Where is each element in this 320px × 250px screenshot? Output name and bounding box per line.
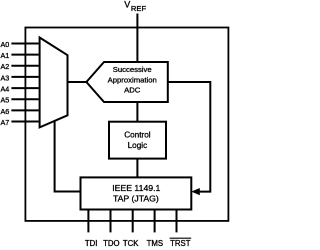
TAP block (IEEE 1149.1 TAP JTAG) [81, 177, 192, 209]
svg-text:TDI: TDI [85, 239, 98, 248]
pin wire TRST [176, 210, 178, 233]
svg-text:REF: REF [131, 4, 147, 13]
svg-text:A1: A1 [1, 51, 10, 60]
multiplexer MUX [40, 38, 68, 128]
svg-text:A4: A4 [1, 85, 10, 94]
wire A2 [11, 65, 38, 67]
wire ADC output to TAP [168, 82, 211, 192]
wire A5 [11, 98, 38, 100]
pin wire TMS [154, 210, 156, 233]
pin wire TCK [132, 210, 134, 233]
svg-text:A7: A7 [1, 118, 10, 127]
wire A0 [11, 43, 38, 45]
pin wire TDI [87, 210, 89, 233]
svg-text:TCK: TCK [123, 239, 139, 248]
chip border [25, 28, 228, 221]
wire Control Logic to TAP [136, 159, 138, 178]
wire ADC to Control Logic [136, 102, 138, 122]
wire A3 [11, 76, 38, 78]
svg-text:TDO: TDO [103, 239, 119, 248]
svg-text:Logic: Logic [128, 141, 148, 150]
svg-text:V: V [124, 0, 130, 10]
wire VREF to ADC [136, 14, 138, 62]
svg-text:ADC: ADC [124, 85, 141, 94]
wire A1 [11, 54, 38, 56]
wire A7 [11, 121, 38, 123]
svg-text:Successive: Successive [113, 65, 152, 74]
svg-text:IEEE 1149.1: IEEE 1149.1 [112, 183, 160, 193]
ADC block (Successive Approximation ADC) [86, 62, 167, 102]
svg-text:A0: A0 [1, 40, 10, 49]
svg-text:A5: A5 [1, 96, 10, 105]
svg-text:TAP (JTAG): TAP (JTAG) [113, 194, 159, 204]
svg-text:A2: A2 [1, 62, 10, 71]
svg-text:Approximation: Approximation [108, 75, 157, 84]
pin wire TDO [110, 210, 112, 233]
Control Logic block [109, 122, 166, 159]
wire MUX to ADC [68, 81, 89, 83]
wire A4 [11, 87, 38, 89]
svg-text:A3: A3 [1, 73, 10, 82]
TRST overline [170, 237, 192, 239]
wire A6 [11, 109, 38, 111]
wire MUX select from TAP [55, 121, 81, 191]
svg-text:Control: Control [124, 130, 151, 139]
arrowhead into TAP [191, 188, 200, 195]
svg-text:TRST: TRST [170, 239, 191, 248]
svg-text:A6: A6 [1, 107, 10, 116]
svg-text:TMS: TMS [147, 239, 163, 248]
